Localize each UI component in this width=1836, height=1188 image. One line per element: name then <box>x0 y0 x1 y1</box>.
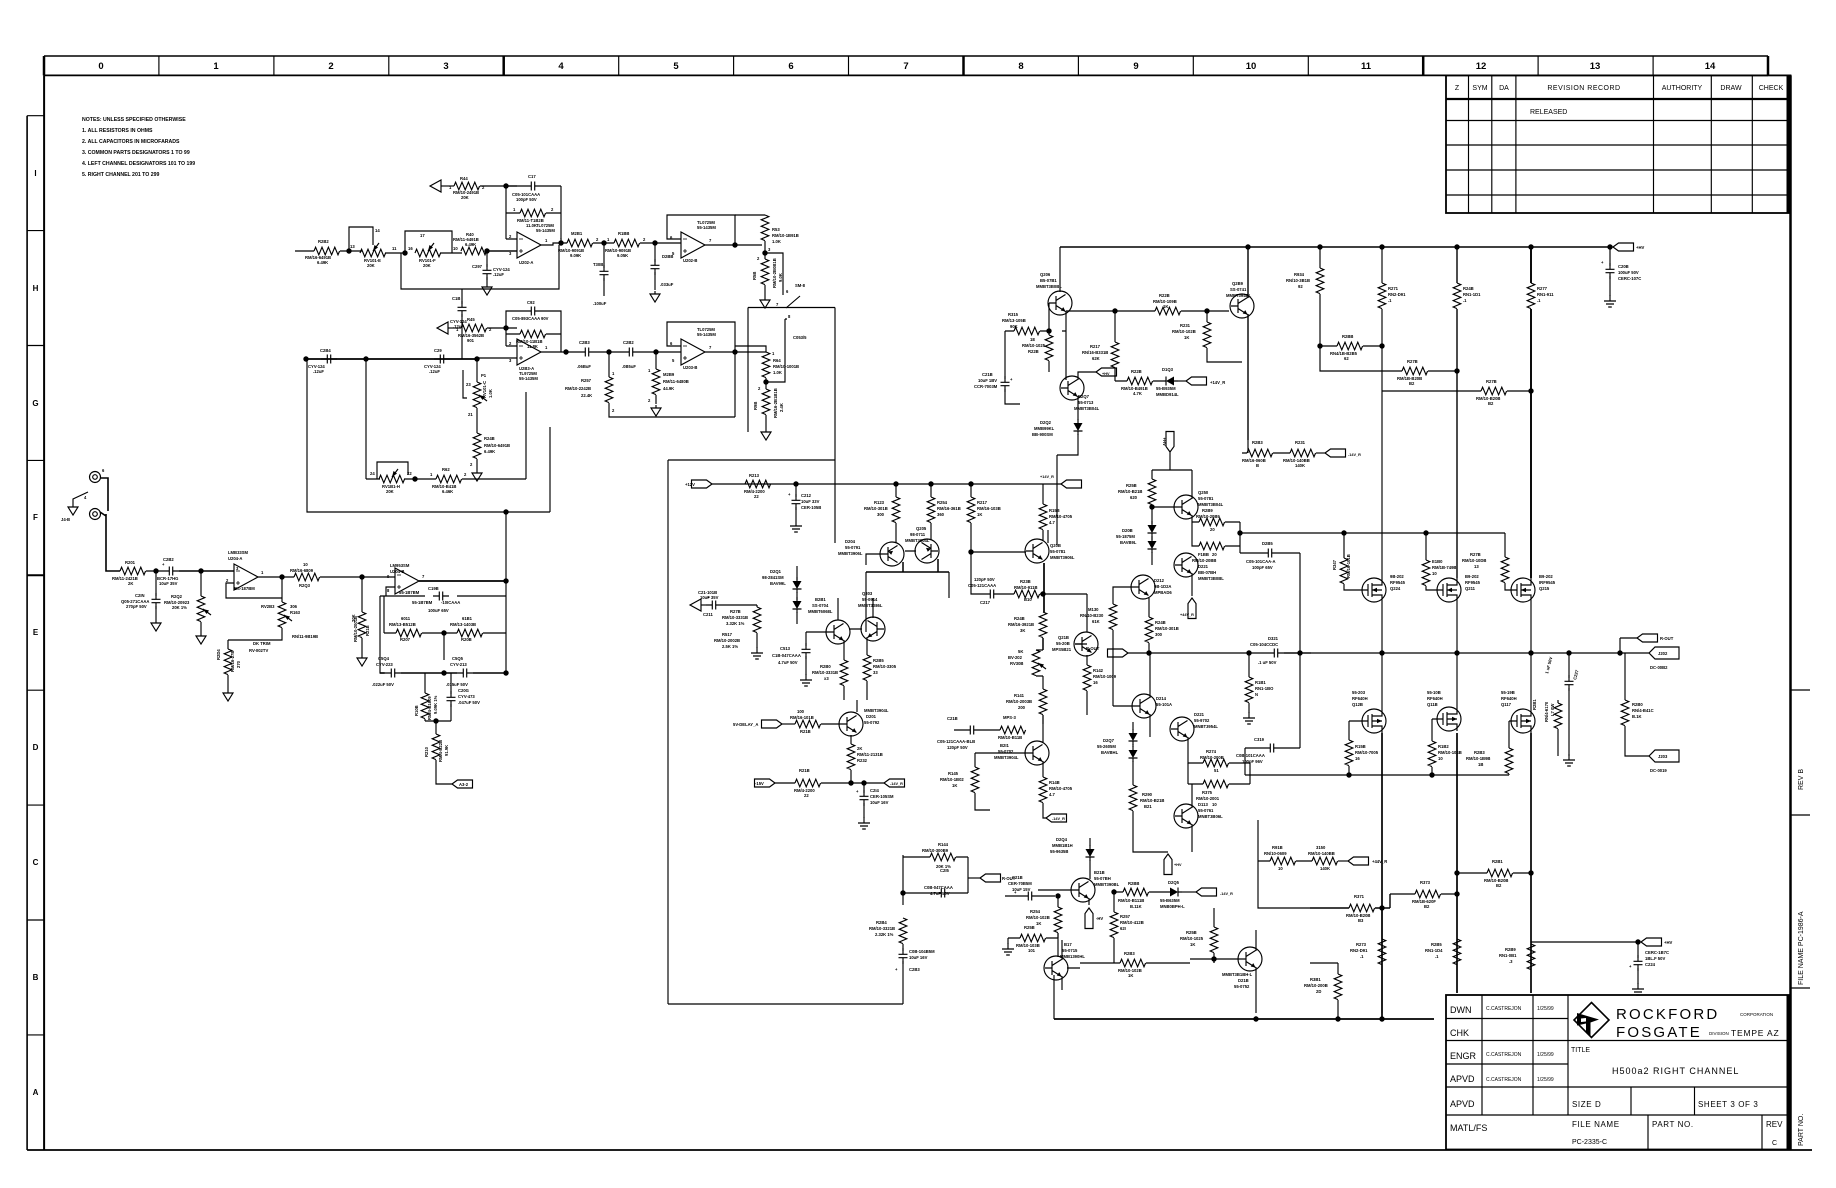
svg-text:R20B: R20B <box>461 637 472 642</box>
svg-text:RM/16-103B: RM/16-103B <box>977 506 1001 511</box>
svg-text:M2B9: M2B9 <box>663 372 675 377</box>
svg-text:12: 12 <box>1476 61 1487 72</box>
svg-text:Q117: Q117 <box>1501 702 1512 707</box>
svg-text:R232: R232 <box>857 758 868 763</box>
svg-text:R27B: R27B <box>1486 379 1497 384</box>
capacitor C288 <box>654 243 656 262</box>
svg-text:5. RIGHT CHANNEL 201 TO 299: 5. RIGHT CHANNEL 201 TO 299 <box>82 172 159 178</box>
svg-text:Z: Z <box>1455 85 1460 92</box>
svg-text:R3B1: R3B1 <box>1310 977 1321 982</box>
svg-text:MMBT3B0BL: MMBT3B0BL <box>1036 284 1062 289</box>
svg-text:90V: 90V <box>541 316 549 321</box>
capacitor C198 <box>433 592 449 601</box>
svg-text:44.9K: 44.9K <box>663 386 674 391</box>
resistor R46 feedback <box>506 333 561 335</box>
capacitor C218 <box>954 729 1000 731</box>
right margin vertical labels <box>1798 769 1805 1146</box>
resistor R273 <box>1381 908 1383 939</box>
capacitor C92 <box>506 311 561 352</box>
svg-text:AH+: AH+ <box>1162 437 1167 446</box>
mosfet Q116 <box>1437 707 1461 731</box>
resistor R45 <box>461 324 487 332</box>
svg-text:10: 10 <box>1438 756 1443 761</box>
svg-text:Q205: Q205 <box>916 526 927 531</box>
svg-text:RM/10-3331B: RM/10-3331B <box>722 615 748 620</box>
svg-text:R22B: R22B <box>1028 349 1039 354</box>
svg-text:-15V: -15V <box>755 781 764 786</box>
svg-text:55-2605M: 55-2605M <box>1097 744 1116 749</box>
svg-text:MMBT3B04L: MMBT3B04L <box>1198 502 1224 507</box>
svg-text:LMB33SM: LMB33SM <box>228 550 249 555</box>
svg-text:RM/10-2001B: RM/10-2001B <box>353 616 358 642</box>
svg-text:.1 uF 50V: .1 uF 50V <box>1258 660 1277 665</box>
svg-text:55-0791: 55-0791 <box>845 545 861 550</box>
svg-text:C2IN: C2IN <box>135 593 145 598</box>
svg-text:MMBT3906L: MMBT3906L <box>838 551 863 556</box>
svg-text:55-1435M: 55-1435M <box>697 225 716 230</box>
row letters <box>32 169 38 1097</box>
svg-text:9.05K: 9.05K <box>617 253 628 258</box>
wire join <box>425 720 451 722</box>
svg-text:Q21B: Q21B <box>1058 635 1069 640</box>
svg-text:RN1-911: RN1-911 <box>1537 292 1554 297</box>
pot RV101-F <box>415 243 441 257</box>
transistor Q217 <box>1044 956 1068 980</box>
svg-text:P1: P1 <box>481 373 487 378</box>
transistor Q213 <box>1174 804 1198 828</box>
svg-text:21: 21 <box>468 412 473 417</box>
svg-text:RN/4-B41C: RN/4-B41C <box>1632 708 1654 713</box>
ground <box>482 284 492 295</box>
ground <box>790 520 802 532</box>
net flag A3-2 <box>452 780 473 788</box>
svg-text:RV2B3: RV2B3 <box>261 604 275 609</box>
ground <box>751 647 763 659</box>
svg-text:APVD: APVD <box>1450 1099 1475 1109</box>
svg-text:300: 300 <box>877 512 885 517</box>
svg-text:33: 33 <box>873 670 878 675</box>
svg-text:RM/10-200B: RM/10-200B <box>1304 983 1328 988</box>
svg-text:RM/10-102B: RM/10-102B <box>1026 915 1050 920</box>
svg-text:3150: 3150 <box>1316 845 1326 850</box>
resistor R217 <box>970 484 972 497</box>
resistor R161 <box>1248 653 1250 677</box>
svg-text:MMBT6068L: MMBT6068L <box>808 609 833 614</box>
svg-text:R21B: R21B <box>799 768 810 773</box>
svg-text:RM/16-361B: RM/16-361B <box>937 506 961 511</box>
svg-text:D321: D321 <box>1268 636 1279 641</box>
resistor R144 <box>903 855 968 905</box>
svg-text:RM/16-6809: RM/16-6809 <box>290 568 314 573</box>
svg-text:R21B: R21B <box>365 625 370 636</box>
frame: top column band <box>44 56 1768 75</box>
svg-text:C1B: C1B <box>452 296 460 301</box>
svg-text:R375: R375 <box>1202 790 1213 795</box>
svg-text:R10B: R10B <box>414 705 419 716</box>
svg-text:R27B: R27B <box>730 609 741 614</box>
svg-text:RM/10-300B9: RM/10-300B9 <box>922 848 949 853</box>
svg-text:BB-900SM: BB-900SM <box>1032 432 1053 437</box>
svg-text:Q11B: Q11B <box>1427 702 1438 707</box>
frame: right edge <box>1789 75 1792 1150</box>
svg-text:CER-105B: CER-105B <box>801 505 821 510</box>
capacitor C204 <box>380 672 444 674</box>
svg-text:RM/10-3305: RM/10-3305 <box>873 664 897 669</box>
svg-text:+14V_R: +14V_R <box>1210 380 1225 385</box>
svg-text:R257: R257 <box>1120 914 1131 919</box>
svg-text:D2B5: D2B5 <box>1262 541 1273 546</box>
resistor R254 <box>1057 896 1059 907</box>
svg-text:55-10B: 55-10B <box>1427 690 1441 695</box>
svg-text:DC-0019: DC-0019 <box>1650 768 1667 773</box>
svg-text:20: 20 <box>1212 552 1217 557</box>
svg-text:RM/4-B22B: RM/4-B22B <box>438 740 443 762</box>
mosfet Q211 <box>1437 578 1461 602</box>
svg-text:PART NO.: PART NO. <box>1798 1114 1805 1146</box>
svg-text:MNB0BPH-L: MNB0BPH-L <box>1160 904 1185 909</box>
svg-text:D113: D113 <box>1198 802 1208 807</box>
svg-text:x3: x3 <box>824 676 829 681</box>
svg-text:MMBT3906L: MMBT3906L <box>1050 555 1075 560</box>
svg-text:62I: 62I <box>1120 926 1126 931</box>
transistor Q207 <box>1060 376 1084 400</box>
svg-text:22.4K: 22.4K <box>581 393 592 398</box>
svg-text:C217: C217 <box>980 600 991 605</box>
svg-text:9: 9 <box>1133 61 1138 72</box>
svg-text:-14V_R: -14V_R <box>890 782 903 786</box>
net flag -14V_R bottom <box>1196 888 1217 896</box>
resistor R265b <box>1453 939 1461 965</box>
svg-text:RN/10-3B1B: RN/10-3B1B <box>1286 278 1310 283</box>
svg-text:A: A <box>33 1088 39 1097</box>
svg-text:2: 2 <box>328 61 333 72</box>
resistor R289 <box>1527 944 1535 970</box>
resistor R123 <box>895 484 897 497</box>
resistor R63 <box>735 214 765 216</box>
svg-text:U204-A: U204-A <box>228 556 242 561</box>
svg-text:B: B <box>1256 463 1259 468</box>
svg-text:Q211: Q211 <box>1465 586 1476 591</box>
resistor R250 <box>840 660 848 686</box>
svg-text:4. LEFT CHANNEL DESIGNATORS 10: 4. LEFT CHANNEL DESIGNATORS 101 TO 199 <box>82 161 195 167</box>
resistor R246 <box>473 433 481 459</box>
svg-text:3. COMMON PARTS DESIGNATORS 1: 3. COMMON PARTS DESIGNATORS 1 TO 99 <box>82 150 190 156</box>
capacitor C208 <box>1609 247 1611 266</box>
svg-text:62: 62 <box>1344 356 1349 361</box>
svg-text:C92: C92 <box>527 300 535 305</box>
resistor R210 <box>435 721 437 734</box>
svg-text:10: 10 <box>1432 571 1437 576</box>
wire mid out rail <box>1128 652 1268 654</box>
svg-text:RM/11-2131B: RM/11-2131B <box>857 752 883 757</box>
resistor R373 <box>1390 893 1457 895</box>
svg-text:1K: 1K <box>1036 921 1041 926</box>
svg-text:R371: R371 <box>1354 894 1365 899</box>
resistor R201 <box>120 567 146 575</box>
svg-text:Q303: Q303 <box>862 591 873 596</box>
svg-text:14: 14 <box>1705 61 1716 72</box>
net flag +HV small <box>1078 372 1096 380</box>
resistor R41 feedback <box>506 186 561 245</box>
svg-text:RN/16-B331B: RN/16-B331B <box>1082 350 1108 355</box>
svg-text:C05-104CCDC: C05-104CCDC <box>1250 642 1278 647</box>
svg-text:R217: R217 <box>1090 344 1101 349</box>
pot RV202 <box>1032 650 1046 676</box>
svg-text:9.0K: 9.0K <box>778 273 783 282</box>
svg-text:R273: R273 <box>1356 942 1367 947</box>
svg-text:RM/10-140BB: RM/10-140BB <box>1308 851 1335 856</box>
svg-text:D2Q1: D2Q1 <box>770 569 782 574</box>
svg-text:5K: 5K <box>1018 649 1023 654</box>
svg-text:13: 13 <box>1474 564 1479 569</box>
resistor R215 <box>1005 330 1049 332</box>
svg-text:F: F <box>33 513 38 522</box>
column numbers <box>98 61 1716 72</box>
capacitor C205 <box>444 672 506 674</box>
capacitor C282 <box>609 351 681 353</box>
svg-text:R145: R145 <box>948 771 959 776</box>
wire bottom bus <box>1054 1018 1434 1020</box>
svg-text:100: 100 <box>797 709 805 714</box>
svg-text:MMB1390HL: MMB1390HL <box>1060 954 1085 959</box>
transistor Q250 <box>1174 495 1198 519</box>
svg-text:C: C <box>33 858 39 867</box>
capacitor C225 <box>1240 553 1300 653</box>
resistor R930 <box>1258 860 1312 862</box>
capacitor C224 <box>1637 942 1639 958</box>
svg-text:7: 7 <box>903 61 908 72</box>
svg-text:RF640H: RF640H <box>1352 696 1368 701</box>
svg-text:C224: C224 <box>1645 962 1656 967</box>
svg-text:MMBD914L: MMBD914L <box>1156 392 1179 397</box>
svg-text:MMB99KL: MMB99KL <box>1034 426 1055 431</box>
svg-text:11: 11 <box>1361 61 1372 72</box>
svg-text:FILE NAME PC-1986-A: FILE NAME PC-1986-A <box>1798 911 1805 985</box>
svg-text:D204: D204 <box>845 539 856 544</box>
capacitor C204 <box>321 355 337 364</box>
svg-text:62K: 62K <box>1092 356 1100 361</box>
svg-text:22: 22 <box>754 494 759 499</box>
svg-text:MMBT3B1BH-L: MMBT3B1BH-L <box>1222 972 1253 977</box>
svg-text:RM/10-4705: RM/10-4705 <box>1049 786 1073 791</box>
svg-text:3K: 3K <box>1020 628 1025 633</box>
svg-text:FILE NAME: FILE NAME <box>1572 1120 1620 1129</box>
op-amp U203-B <box>681 339 705 365</box>
transistor Q218 <box>1238 947 1262 971</box>
svg-text:4: 4 <box>558 61 564 72</box>
resistor R274 <box>1188 737 1250 763</box>
svg-text:MPS-3: MPS-3 <box>1003 715 1016 720</box>
connector J202 <box>1649 647 1679 659</box>
resistor R231b <box>1290 449 1316 457</box>
svg-text:R207: R207 <box>400 637 411 642</box>
svg-text:120pF 50V: 120pF 50V <box>974 577 995 582</box>
resistor R98 <box>762 389 770 415</box>
wire jack loop <box>100 478 120 571</box>
svg-text:3: 3 <box>443 61 448 72</box>
net flag +HV right <box>1531 941 1637 943</box>
diode D206 <box>1148 521 1157 537</box>
svg-text:RN1-0B1: RN1-0B1 <box>1499 953 1517 958</box>
svg-text:RN/10-0609: RN/10-0609 <box>1264 851 1287 856</box>
svg-text:ROCKFORD: ROCKFORD <box>1616 1006 1719 1023</box>
svg-text:R2B3: R2B3 <box>1124 951 1135 956</box>
svg-text:3.32K 1%: 3.32K 1% <box>726 621 745 626</box>
transistor Q216 <box>1071 878 1095 902</box>
svg-text:R45: R45 <box>467 317 475 322</box>
svg-text:100uF 65V: 100uF 65V <box>428 608 449 613</box>
svg-text:.06BuF: .06BuF <box>577 364 591 369</box>
op-amp U203-A <box>517 339 541 365</box>
svg-text:B9-202: B9-202 <box>1465 574 1479 579</box>
svg-text:C17: C17 <box>528 174 536 179</box>
svg-text:U204-B: U204-B <box>390 569 404 574</box>
svg-text:D214: D214 <box>1156 696 1167 701</box>
svg-text:120pF 50V: 120pF 50V <box>947 745 968 750</box>
svg-text:R201: R201 <box>125 560 136 565</box>
svg-text:CER-70B5M: CER-70B5M <box>1008 881 1032 886</box>
svg-text:6.49K: 6.49K <box>484 449 495 454</box>
svg-text:55-B635M: 55-B635M <box>1160 898 1180 903</box>
svg-text:MMBT3904L: MMBT3904L <box>994 755 1019 760</box>
svg-text:BAVBHL: BAVBHL <box>1101 750 1119 755</box>
net flag +12V <box>692 480 713 488</box>
svg-text:1K: 1K <box>1184 335 1189 340</box>
svg-text:B.1K: B.1K <box>1632 714 1642 719</box>
svg-text:C1B-047CAAA: C1B-047CAAA <box>772 653 801 658</box>
svg-text:11: 11 <box>392 246 397 251</box>
svg-text:22: 22 <box>804 793 809 798</box>
svg-text:1. ALL RESISTORS IN OHMS: 1. ALL RESISTORS IN OHMS <box>82 128 153 134</box>
svg-text:RM/16-27B: RM/16-27B <box>230 651 235 672</box>
capacitor C211 <box>690 599 701 611</box>
svg-text:1K: 1K <box>1163 304 1168 309</box>
ground <box>650 291 660 302</box>
op-amp U202-A <box>517 232 541 258</box>
resistor R218 <box>795 720 821 728</box>
diode D103 <box>1162 377 1178 386</box>
svg-text:R1BB: R1BB <box>618 231 629 236</box>
svg-text:20K 1%: 20K 1% <box>172 605 187 610</box>
svg-text:R210: R210 <box>424 746 429 757</box>
svg-text:R1B2: R1B2 <box>1438 744 1449 749</box>
resistor R275 gate <box>1504 533 1506 557</box>
svg-text:MMBT3904L: MMBT3904L <box>905 538 930 543</box>
svg-text:RM/10-200B: RM/10-200B <box>1200 755 1224 760</box>
svg-text:APVD: APVD <box>1450 1074 1475 1084</box>
svg-text:B2B1: B2B1 <box>815 597 826 602</box>
capacitor C212 <box>795 484 797 497</box>
svg-text:R271: R271 <box>1388 286 1399 291</box>
svg-text:C21B: C21B <box>982 372 993 377</box>
svg-text:CYV-473: CYV-473 <box>458 694 475 699</box>
svg-text:1B: 1B <box>1478 762 1483 767</box>
svg-text:RM/16-2B1B1B: RM/16-2B1B1B <box>773 388 778 418</box>
step wire to throw 8 <box>766 319 787 382</box>
capacitor C201 <box>155 571 157 596</box>
svg-text:10: 10 <box>1246 61 1257 72</box>
svg-text:R934: R934 <box>1294 272 1305 277</box>
resistor R146 <box>1039 777 1047 803</box>
resistor R225 <box>1046 328 1051 333</box>
transistor Q221 <box>1174 553 1198 577</box>
svg-text:RM/10-1025: RM/10-1025 <box>1180 936 1204 941</box>
net flag 5V-DELAY_A <box>762 720 783 728</box>
net flag +HV <box>1610 246 1613 248</box>
svg-text:R27B: R27B <box>1470 552 1481 557</box>
svg-text:D221: D221 <box>1194 712 1205 717</box>
svg-text:13: 13 <box>350 244 355 249</box>
svg-text:IRF9545: IRF9545 <box>1539 580 1556 585</box>
mosfet Q150 <box>1362 709 1386 733</box>
svg-text:R21B: R21B <box>800 729 811 734</box>
svg-text:1BL.F 50V: 1BL.F 50V <box>1645 956 1665 961</box>
svg-text:R14B: R14B <box>1049 780 1060 785</box>
wire U203-A out <box>541 351 567 353</box>
resistor R256 <box>1008 933 1058 938</box>
svg-text:R163: R163 <box>290 610 301 615</box>
svg-text:55-101A: 55-101A <box>1156 702 1172 707</box>
resistor R219 <box>795 779 821 787</box>
svg-text:PART NO.: PART NO. <box>1652 1120 1694 1129</box>
svg-text:J4-B: J4-B <box>61 517 70 522</box>
svg-text:270: 270 <box>236 660 241 668</box>
svg-text:55-1435M: 55-1435M <box>536 228 555 233</box>
svg-text:RM/10-102B: RM/10-102B <box>1172 329 1196 334</box>
svg-text:CCR-7003M: CCR-7003M <box>974 384 998 389</box>
svg-text:H500a2 RIGHT CHANNEL: H500a2 RIGHT CHANNEL <box>1612 1066 1739 1076</box>
svg-text:MMBT390BL: MMBT390BL <box>1094 882 1120 887</box>
net flag R-OUT mid <box>1086 646 1100 651</box>
diode D201 <box>796 566 798 580</box>
resistor R261 <box>567 239 593 247</box>
svg-text:B2: B2 <box>1424 904 1430 909</box>
svg-text:.022uF 50V: .022uF 50V <box>372 682 394 687</box>
svg-text:R2B2: R2B2 <box>318 239 329 244</box>
svg-text:C297: C297 <box>472 264 483 269</box>
resistor R232 <box>847 744 855 770</box>
svg-text:RM/10-1B91B: RM/10-1B91B <box>772 233 799 238</box>
revision record table <box>1446 75 1791 213</box>
svg-text:RM/10-1B9B: RM/10-1B9B <box>1466 756 1490 761</box>
transistor Q214 <box>1132 694 1156 718</box>
svg-text:20K: 20K <box>423 263 431 268</box>
svg-text:R2Q2: R2Q2 <box>171 594 183 599</box>
resistor R217d <box>1114 311 1116 342</box>
wire U204-B out <box>419 580 506 582</box>
pot R163 trim <box>281 577 283 602</box>
transistor Q208 <box>1025 539 1049 563</box>
svg-text:D2Q4: D2Q4 <box>1056 837 1068 842</box>
resistor R257c <box>1113 892 1115 912</box>
op-amp U202-B <box>681 232 705 258</box>
svg-text:1.0K: 1.0K <box>773 370 782 375</box>
svg-text:BAVB9L: BAVB9L <box>1120 540 1137 545</box>
svg-text:55-1B7BM: 55-1B7BM <box>412 600 433 605</box>
svg-text:RM/10-301B: RM/10-301B <box>864 506 888 511</box>
svg-text:B9-202: B9-202 <box>1539 574 1553 579</box>
svg-text:Q250: Q250 <box>1198 490 1209 495</box>
svg-text:M2B1: M2B1 <box>571 231 583 236</box>
svg-text:R2D4: R2D4 <box>216 649 221 660</box>
svg-text:C513: C513 <box>780 646 791 651</box>
svg-text:Q20B: Q20B <box>1050 543 1061 548</box>
capacitor C227 <box>1568 653 1570 678</box>
resistor R282b <box>1310 963 1338 974</box>
capacitor C215 <box>903 892 968 894</box>
svg-text:6011: 6011 <box>401 616 411 621</box>
svg-text:J202: J202 <box>1658 651 1668 656</box>
